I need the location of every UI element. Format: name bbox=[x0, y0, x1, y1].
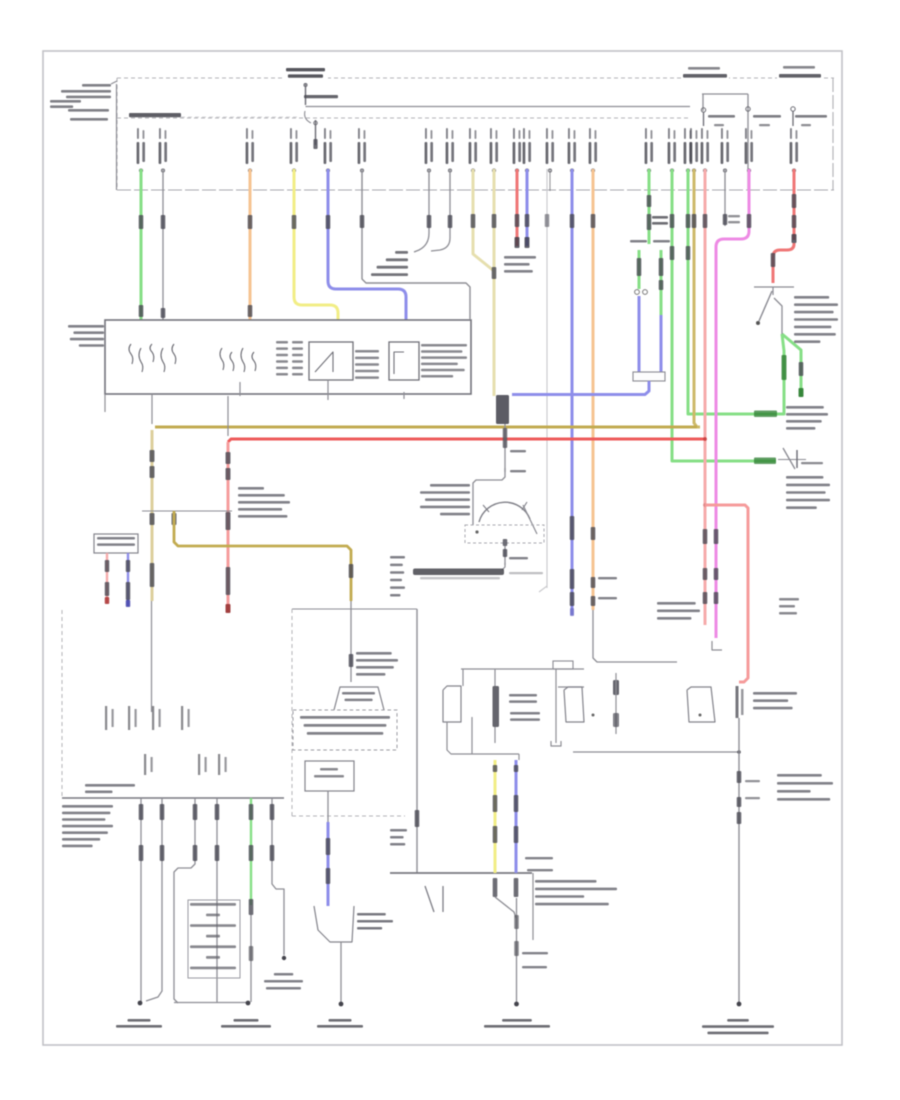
fuse No.22 bbox=[791, 107, 795, 111]
wire label + fuse at x=494 bbox=[490, 128, 492, 139]
ignition switch arc bbox=[479, 502, 530, 522]
wire label + fuse at x=250 bbox=[246, 128, 248, 139]
wire WHT x163 to under-dash box bbox=[162, 169, 164, 320]
junction dot red branch bbox=[703, 437, 707, 441]
bottom collector line to G202 bbox=[174, 1002, 248, 1004]
wire label + fuse at x=362 bbox=[358, 128, 360, 139]
text block right y476 bbox=[786, 476, 823, 479]
wire x195 jog to x174 bbox=[174, 798, 195, 1003]
wire GRY x725 stub bbox=[724, 169, 726, 226]
wire label + fuse at x=450 bbox=[446, 128, 448, 139]
wire label + fuse at x=593 bbox=[589, 128, 591, 139]
main bus wire from fuse No.1 bbox=[306, 106, 691, 108]
note paragraph below left bbox=[62, 805, 113, 808]
wire GRN x672 (accessory) bbox=[671, 169, 674, 461]
connector bars x739 bbox=[736, 686, 739, 718]
gauge control module dashed box bbox=[293, 710, 397, 750]
connector option box left bbox=[94, 534, 138, 553]
junction box for blue pair bbox=[633, 372, 665, 381]
ignition label column left bbox=[390, 556, 405, 559]
text near frame right y600 bbox=[779, 598, 799, 601]
yellow drop wire x495 bbox=[494, 760, 497, 873]
wire RED x517 stub bbox=[516, 169, 519, 246]
wire x217 bbox=[216, 798, 218, 1002]
fuse No.21 bbox=[746, 107, 750, 111]
connector bar pairs row y754 bbox=[144, 754, 146, 775]
ground G401 dot+label bbox=[514, 1002, 519, 1007]
label above line y798 bbox=[85, 784, 135, 787]
wire GRN-BLU x661 bbox=[660, 250, 663, 315]
wire GRY x362 elbow right y283 to box corner bbox=[362, 169, 470, 319]
stub from box to tan corner bbox=[151, 394, 153, 424]
wire label + fuse at x=141 bbox=[137, 128, 139, 139]
right sub bus y687 bbox=[558, 686, 584, 688]
fuse No.2 (50A) bbox=[315, 120, 317, 145]
labels for split green pair bbox=[630, 240, 647, 243]
region boundary line y798 bbox=[62, 797, 284, 799]
yellow/blue merge below bus bbox=[493, 878, 498, 897]
fuse No.1 (100A) bbox=[305, 83, 307, 105]
junction crossbar y511 bbox=[142, 510, 232, 512]
wire YEL x294 elbow to x338 bbox=[294, 169, 338, 320]
tall center pin bbox=[555, 669, 557, 743]
ignition switch right text block bbox=[794, 296, 829, 299]
under-dash fuse/relay box bbox=[105, 320, 471, 394]
gauge connector trapezoid bbox=[334, 687, 384, 710]
fuse list table lower-left bbox=[188, 900, 240, 978]
ignition switch contact top-right bbox=[754, 286, 794, 288]
wire label + fuse at x=725 bbox=[721, 128, 723, 139]
relay text labels bbox=[509, 694, 537, 697]
label HOT IN ON (right-1) bbox=[681, 64, 729, 83]
wire label + fuse at x=694 bbox=[690, 128, 692, 139]
wire label + fuse at x=328 bbox=[324, 128, 326, 139]
magenta end connector bbox=[712, 641, 722, 650]
wire x417 long vertical bbox=[416, 609, 418, 873]
wire label + fuse at x=429 bbox=[425, 128, 427, 139]
switch wire down to cylinder bbox=[504, 424, 506, 472]
wire BLU x328 elbow to x406 bbox=[328, 169, 406, 320]
fuse labels column pair bbox=[276, 341, 288, 344]
stub below fuse group2 bbox=[239, 382, 241, 396]
red loop feed top bbox=[705, 505, 748, 682]
wire KHAKI x494 to ignition connector bbox=[493, 169, 496, 396]
wire GRY x450 curve to label bbox=[431, 169, 450, 251]
wire GRN x801 branch bbox=[782, 334, 801, 397]
wire BLU stub x128 bbox=[127, 553, 129, 606]
switch blade marks left of G401 bbox=[425, 886, 434, 912]
relay cluster top bus y669 bbox=[461, 668, 584, 670]
wire label + fuse at x=688 bbox=[684, 128, 686, 139]
switch wire elbow into cylinder bbox=[473, 468, 505, 525]
relay output loop bbox=[447, 722, 519, 754]
labels right of bus y873 bbox=[525, 857, 553, 859]
wire to ground G503 bbox=[340, 942, 342, 1003]
wire x272 to junction dot bbox=[272, 798, 284, 955]
wire GRN x649 feeder bbox=[648, 169, 651, 244]
switch blade diagonal bbox=[523, 505, 537, 534]
ring on branch below junction bbox=[172, 513, 177, 525]
blue drop wire x516 bbox=[515, 760, 518, 873]
text block right of green end bbox=[786, 406, 824, 409]
right connector trapezoid bbox=[564, 687, 584, 722]
gray continuation to gauge module bbox=[350, 601, 352, 682]
key cylinder dashed box bbox=[465, 525, 544, 543]
tan vertical x152 (pale khaki) bbox=[151, 430, 154, 601]
wire GRN-BLU x639 bbox=[638, 250, 641, 289]
wire label + fuse at x=473 bbox=[469, 128, 471, 139]
wire GRY x429 curve to label bbox=[414, 169, 429, 252]
wire GRN x251 bbox=[250, 798, 252, 905]
wire label + fuse at x=550 bbox=[546, 128, 548, 139]
ignition switch text block bbox=[430, 484, 470, 487]
red vertical x228 (pale) bbox=[227, 442, 230, 612]
tan bus wire y427 bbox=[155, 426, 697, 429]
wire label + fuse at x=794 bbox=[790, 128, 792, 139]
wire KHAKI x473 elbow into x494 bbox=[473, 169, 494, 271]
tan branch wire to gauge connector bbox=[174, 511, 351, 601]
green horizontal y461 to switch contact bbox=[672, 458, 776, 461]
wire RED-light x705 main feed bbox=[704, 169, 707, 625]
switch blade symbol at green end bbox=[778, 459, 806, 461]
under-dash box name label bbox=[68, 325, 104, 328]
label block staircase near diagonal stubs bbox=[395, 251, 408, 254]
tick below box2 bbox=[403, 392, 405, 399]
gray continuation of tan x152 bbox=[151, 601, 153, 712]
wire label + fuse at x=749 bbox=[745, 128, 747, 139]
dashed boundary vertical x62 bbox=[61, 610, 63, 798]
relay box inside bbox=[309, 342, 353, 380]
ground G201 dot+label bbox=[138, 1001, 143, 1006]
wires from y798: x141 bbox=[140, 798, 142, 1002]
wire label + fuse at x=294 bbox=[290, 128, 292, 139]
battery positive cable wire bbox=[111, 81, 117, 84]
text block inside box right bbox=[421, 344, 467, 347]
wire x162 to G201 bbox=[146, 798, 162, 1001]
wire ORN x593 then gray elbow bbox=[592, 169, 595, 610]
wire label + fuse at x=527 bbox=[523, 128, 525, 139]
wire BLU x328 to ground connector bbox=[327, 822, 330, 906]
label right of khaki wires bbox=[504, 256, 536, 259]
hot-at-all-times divider dashed line bbox=[117, 117, 691, 119]
wire label + fuse at x=572 bbox=[568, 128, 570, 139]
red bus wire y439 bbox=[228, 439, 706, 442]
bus line y873 bbox=[390, 872, 532, 874]
left connector trapezoid bbox=[443, 686, 461, 722]
wire label + fuse at x=705 bbox=[701, 128, 703, 139]
ignition key connector block bbox=[496, 395, 509, 424]
shift lock text paragraph bbox=[535, 880, 597, 883]
component box 2 inside bbox=[389, 342, 419, 380]
wire BLU x527 stub bbox=[526, 169, 529, 246]
wire GRY x550 long light bbox=[546, 169, 548, 588]
ignition hot sub-box outline bbox=[702, 93, 748, 95]
ground G551 dot+label bbox=[737, 1002, 742, 1007]
wire label + fuse at x=517 bbox=[513, 128, 515, 139]
under-hood box name label bbox=[129, 113, 181, 117]
connector trapezoid 3 bbox=[687, 687, 715, 722]
blue bus wire y394 to ignition switch bbox=[512, 381, 649, 395]
gauge sub box bbox=[305, 761, 354, 791]
wire x739 to ground bbox=[738, 718, 740, 1003]
wire GRN x141 to under-dash box bbox=[140, 169, 143, 320]
dashed boundary vertical x292 bbox=[291, 609, 293, 816]
wire label + fuse at x=649 bbox=[645, 128, 647, 139]
wire RED stub x107 bbox=[106, 553, 108, 603]
relay pin dark bbox=[493, 686, 500, 727]
ground G503 dot+label bbox=[339, 1002, 344, 1007]
wire below key cylinder bbox=[503, 539, 508, 546]
in-line connector label mid-left bbox=[238, 487, 264, 490]
battery text block bbox=[82, 84, 111, 87]
right relay pin bbox=[613, 680, 619, 695]
wire ORN x250 to under-dash box bbox=[249, 169, 252, 320]
wire label + fuse at x=163 bbox=[159, 128, 161, 139]
dashed boundary y816 bbox=[292, 815, 405, 817]
wire KHAKI-dark x694 to tan bus bbox=[694, 169, 700, 427]
ground connector trapezoid bbox=[314, 906, 354, 942]
under-hood fuse/relay box dashed outline bbox=[117, 77, 834, 79]
key position labels bar bbox=[413, 569, 504, 576]
fuse squiggles group 2 bbox=[220, 348, 224, 370]
bus y752 to right connector bbox=[573, 751, 739, 753]
fuse No.9 (15A) bbox=[701, 108, 705, 112]
wire BLU x572 to arrow end bbox=[571, 169, 574, 615]
stub from box to red corner bbox=[227, 396, 229, 436]
label HOT IN START (right-2) bbox=[777, 63, 823, 83]
wire below gauge module bbox=[327, 791, 329, 822]
wire label + fuse at x=672 bbox=[668, 128, 670, 139]
green horizontal y414 and rise to switch bbox=[688, 334, 784, 414]
stub below relay bbox=[327, 380, 329, 400]
region boundary line y609 bbox=[292, 608, 417, 610]
wire RED x794 to ignition switch feed bbox=[793, 169, 796, 240]
connector bar pairs row y706 bbox=[105, 706, 107, 730]
fuse squiggles group 1 bbox=[129, 344, 133, 364]
stub x105 below box bbox=[104, 394, 106, 412]
label HOT AT ALL TIMES (left) bbox=[284, 66, 328, 82]
wire GRN x688 (ignition 1) bbox=[687, 169, 690, 413]
ground G202 dot+label bbox=[246, 1001, 251, 1006]
wire MAG x749 elbow to x716 bbox=[716, 169, 749, 638]
